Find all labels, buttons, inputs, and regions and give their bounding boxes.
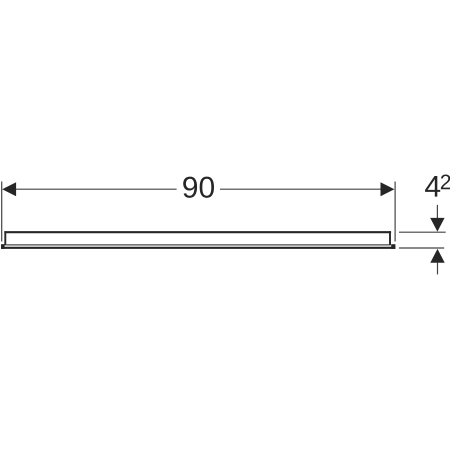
profile top edge: [4, 231, 391, 233]
flange bottom edge: [1, 247, 395, 249]
arrowhead right of 90 dim: [381, 182, 395, 196]
label 90: [183, 177, 214, 198]
label superscript 2: [441, 175, 450, 190]
gauge line bottom (thickness dim): [399, 247, 444, 249]
dimension line 90 left segment: [15, 188, 177, 190]
gauge line top (thickness dim): [399, 231, 446, 233]
profile right end edge: [389, 231, 391, 245]
flange left tip: [1, 244, 5, 249]
flange right tip: [391, 244, 395, 249]
arrowhead left of 90 dim: [2, 182, 16, 196]
label 4 (thickness): [425, 176, 440, 197]
extension line right (width dim): [394, 182, 396, 242]
arrowhead up (thickness dim): [430, 249, 444, 263]
extension line left (width dim): [1, 182, 3, 242]
leader below up arrow: [437, 263, 439, 275]
dimension line 90 right segment: [220, 188, 382, 190]
arrowhead down (thickness dim): [430, 218, 444, 232]
profile left end edge: [4, 231, 6, 245]
leader above down arrow: [436, 205, 438, 219]
profile inner seam line: [6, 244, 389, 246]
